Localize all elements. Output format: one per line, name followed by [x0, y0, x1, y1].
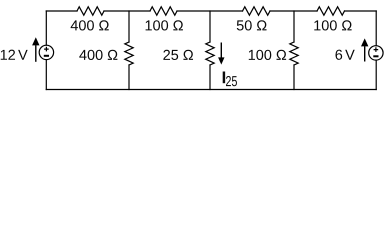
label R4 100 ohm: [314, 20, 351, 30]
V2 current direction arrow head: [361, 38, 368, 46]
resistor R2 100 ohm top: [150, 7, 177, 15]
label R1 400 ohm: [71, 20, 109, 30]
wire middle branch 3 upper: [293, 11, 295, 42]
label R2 100 ohm: [146, 20, 183, 30]
resistor R3 50 ohm top: [243, 7, 271, 15]
V1 polarity plus: [44, 47, 49, 52]
resistor R6 25 ohm shunt: [206, 42, 214, 65]
label V1 12 V: [1, 50, 28, 60]
wire top between R3 and R4: [270, 10, 317, 12]
wire right below source V2: [375, 60, 377, 89]
V2 current direction arrow shaft: [364, 46, 366, 61]
V2 polarity plus: [374, 47, 379, 52]
V1 current direction arrow shaft: [35, 45, 37, 62]
label I25 subscript: [226, 76, 237, 86]
voltage source V1 12V circle: [39, 45, 53, 59]
wire top-left segment: [46, 10, 77, 12]
resistor R5 400 ohm shunt: [125, 42, 133, 65]
resistor R7 100 ohm shunt: [290, 42, 298, 65]
wire left above source V1: [45, 11, 47, 45]
wire top-right segment: [345, 10, 377, 12]
wire middle branch 3 lower: [293, 65, 295, 90]
label R7 100 ohm: [249, 50, 286, 60]
label I25 current symbol: [223, 72, 225, 84]
wire bottom: [46, 89, 376, 91]
I25 current arrow head: [218, 57, 224, 64]
voltage source V2 6V circle: [369, 46, 383, 60]
wire right above source V2: [375, 11, 377, 46]
wire middle branch 1 lower: [128, 65, 130, 90]
V1 polarity minus: [44, 55, 49, 57]
resistor R1 400 ohm top: [77, 7, 104, 15]
wire middle branch 1 upper: [128, 11, 130, 42]
label V2 6 V: [335, 50, 354, 60]
V1 current direction arrow head: [32, 37, 39, 45]
wire top between R1 and R2: [104, 10, 150, 12]
I25 current arrow shaft: [220, 43, 222, 59]
label R3 50 ohm: [237, 20, 267, 30]
V2 polarity minus: [373, 55, 378, 57]
wire top between R2 and R3: [177, 10, 243, 12]
wire middle branch 2 upper: [209, 11, 211, 42]
label R6 25 ohm: [163, 50, 193, 60]
wire left below source V1: [45, 60, 47, 90]
label R5 400 ohm: [79, 50, 117, 60]
wire middle branch 2 lower: [209, 65, 211, 90]
resistor R4 100 ohm top: [317, 7, 345, 15]
